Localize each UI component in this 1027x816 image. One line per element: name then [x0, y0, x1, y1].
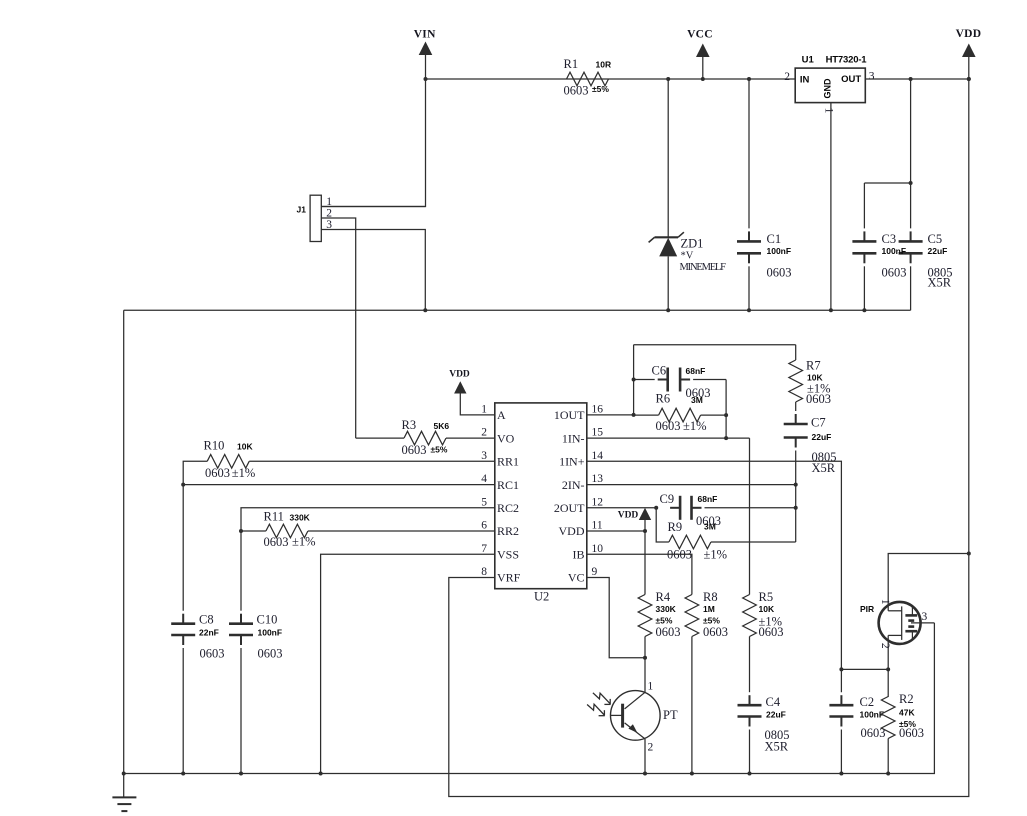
- wire U1 OUT line: [865, 78, 969, 80]
- label U1 pin number 2: [784, 71, 790, 83]
- svg-text:0603: 0603: [264, 535, 289, 549]
- svg-text:2: 2: [648, 742, 654, 754]
- svg-text:C6: C6: [652, 364, 667, 378]
- label C9 0603: [696, 514, 721, 528]
- label R1 value 10R: [596, 59, 612, 69]
- wire VCC stem: [702, 57, 704, 79]
- label R6 value 3M: [691, 395, 703, 405]
- svg-text:R3: R3: [402, 418, 417, 432]
- junction VC/R4: [643, 656, 647, 660]
- svg-text:100nF: 100nF: [882, 246, 907, 256]
- svg-text:VIN: VIN: [414, 29, 436, 41]
- label R6: [656, 392, 671, 406]
- svg-text:7: 7: [481, 543, 487, 555]
- label PT pin 2: [648, 742, 654, 754]
- label U2 pin name 1IN+: [559, 455, 585, 469]
- power flag VDD top-right: [956, 28, 982, 57]
- junction VSS/gnd-rail: [319, 772, 323, 776]
- svg-text:R11: R11: [264, 509, 284, 523]
- label U2 pin number 15: [592, 427, 604, 439]
- wire lower gnd rail: [124, 623, 935, 774]
- wire U2 pin1: [460, 393, 495, 415]
- junction C2/gnd-rail: [839, 772, 843, 776]
- junction U1-GND/gnd-rail: [829, 308, 833, 312]
- ground symbol: [112, 774, 136, 812]
- label R2 value 47K: [899, 707, 915, 717]
- wire R4 to PT: [644, 637, 646, 693]
- wire U2 pin13 2IN-: [587, 484, 796, 486]
- label PT: [663, 708, 678, 722]
- wire U2 pin11 VDD: [587, 530, 645, 532]
- label R11: [264, 509, 284, 523]
- svg-text:RR2: RR2: [497, 524, 519, 538]
- label PIR pin 1: [879, 599, 891, 605]
- svg-text:4: 4: [481, 473, 487, 485]
- svg-text:±5%: ±5%: [592, 84, 609, 94]
- junction pin4/C8 column: [181, 483, 185, 487]
- svg-text:68nF: 68nF: [686, 366, 706, 376]
- svg-text:IB: IB: [573, 548, 585, 562]
- label R9: [668, 520, 683, 534]
- wire U2 pin2: [446, 437, 495, 439]
- svg-text:2: 2: [326, 208, 332, 220]
- svg-text:10R: 10R: [596, 59, 612, 69]
- label U2 pin name 2OUT: [554, 501, 585, 515]
- resistor R9: [669, 535, 711, 549]
- label C7 0805: [812, 450, 837, 464]
- wire R6 left lead: [634, 414, 659, 416]
- svg-text:14: 14: [592, 450, 604, 462]
- resistor R1: [567, 72, 609, 86]
- label R5 0603: [759, 625, 784, 639]
- capacitor C8: [171, 614, 195, 774]
- label C7: [811, 416, 826, 430]
- label U2 pin name RR1: [497, 455, 519, 469]
- svg-text:1IN-: 1IN-: [562, 431, 585, 445]
- wire U2 pin5: [241, 508, 495, 531]
- junction ZD1/gnd-rail: [666, 308, 670, 312]
- svg-text:3M: 3M: [691, 395, 703, 405]
- svg-text:10K: 10K: [759, 604, 775, 614]
- svg-text:RC1: RC1: [497, 478, 519, 492]
- svg-text:100nF: 100nF: [860, 709, 885, 719]
- junction C9 right/C7 column: [794, 506, 798, 510]
- svg-text:100nF: 100nF: [767, 246, 792, 256]
- svg-text:R9: R9: [668, 520, 683, 534]
- svg-text:3M: 3M: [704, 522, 716, 532]
- label R8 0603: [703, 625, 728, 639]
- svg-text:R2: R2: [899, 692, 914, 706]
- svg-text:0603: 0603: [899, 726, 924, 740]
- label R8: [703, 590, 718, 604]
- svg-text:5: 5: [481, 496, 487, 508]
- junction OUT/VDD-rail: [967, 77, 971, 81]
- label C4 value 22uF: [766, 709, 786, 719]
- label PIR pin 3: [922, 611, 928, 623]
- junction pin11/VDD column: [643, 529, 647, 533]
- phototransistor PT collector: [625, 692, 645, 709]
- label U1 pin IN: [800, 75, 810, 86]
- label U2 pin name 2IN-: [562, 478, 585, 492]
- label PIR pin 2: [879, 643, 891, 649]
- svg-text:2: 2: [481, 427, 487, 439]
- svg-text:0603: 0603: [258, 647, 283, 661]
- label J1: [297, 205, 307, 215]
- wire R5 riser: [749, 438, 751, 594]
- svg-text:J1: J1: [297, 205, 307, 215]
- junction VCC/main: [701, 77, 705, 81]
- label U2 pin name VDD: [559, 524, 585, 538]
- label U1 pin GND: [823, 78, 833, 99]
- svg-text:2OUT: 2OUT: [554, 501, 585, 515]
- label R4 tol ±5%: [656, 616, 673, 626]
- label R10 tol ±1%: [232, 466, 256, 480]
- wire PT emitter to gnd: [644, 739, 646, 774]
- wire U2 pin15 1IN-: [587, 437, 750, 439]
- wire U2 pin7 VSS: [321, 554, 495, 773]
- label ZD1 MINEMELF: [680, 262, 727, 273]
- svg-text:330K: 330K: [290, 512, 311, 522]
- junction PIR/VDD-rail: [967, 552, 971, 556]
- junction C5/C3-jog: [909, 181, 913, 185]
- label R5 value 10K: [759, 604, 775, 614]
- svg-text:R1: R1: [564, 57, 579, 71]
- zener diode ZD1: [649, 232, 684, 310]
- svg-text:2: 2: [784, 71, 790, 83]
- svg-text:100nF: 100nF: [258, 628, 283, 638]
- svg-text:330K: 330K: [656, 604, 677, 614]
- label R9 tol ±1%: [704, 547, 728, 561]
- junction OUT/C5: [909, 77, 913, 81]
- svg-text:C1: C1: [767, 232, 782, 246]
- junction R8/gnd-rail: [690, 772, 694, 776]
- label U2 pin name 1IN-: [562, 431, 585, 445]
- junction C4/gnd-rail: [748, 772, 752, 776]
- label C1 0603: [767, 265, 792, 279]
- wire U2 pin12 2OUT: [587, 507, 656, 509]
- svg-text:X5R: X5R: [812, 461, 836, 475]
- label ZD1: [681, 237, 704, 251]
- label C4 0805: [765, 728, 790, 742]
- label R4 value 330K: [656, 604, 677, 614]
- svg-text:22uF: 22uF: [928, 246, 948, 256]
- label R3 tol ±5%: [431, 445, 448, 455]
- svg-text:C4: C4: [766, 695, 781, 709]
- wire R11 left lead: [241, 530, 266, 532]
- wire C2 link: [841, 668, 888, 670]
- svg-text:VC: VC: [568, 571, 585, 585]
- junction R2/gnd-rail: [886, 772, 890, 776]
- label C3: [882, 232, 897, 246]
- svg-text:ZD1: ZD1: [681, 237, 704, 251]
- svg-text:3: 3: [869, 71, 875, 83]
- label U2 pin number 1: [481, 403, 487, 415]
- label C4 X5R: [765, 740, 789, 754]
- svg-text:6: 6: [481, 520, 487, 532]
- svg-text:VRF: VRF: [497, 571, 521, 585]
- label U2 pin number 13: [592, 473, 604, 485]
- wire 1OUT riser: [633, 345, 635, 415]
- svg-text:X5R: X5R: [928, 275, 952, 289]
- label C2 value 100nF: [860, 709, 885, 719]
- label C6: [652, 364, 667, 378]
- label R1: [564, 57, 579, 71]
- wire ZD1 upper lead: [667, 79, 669, 237]
- junction 2OUT node: [654, 506, 658, 510]
- junction PT/gnd-rail: [643, 772, 647, 776]
- svg-text:R5: R5: [759, 590, 774, 604]
- capacitor C9: [670, 496, 796, 520]
- svg-text:MINEMELF: MINEMELF: [680, 262, 727, 273]
- svg-text:GND: GND: [823, 78, 833, 99]
- capacitor C2: [829, 695, 853, 773]
- label U2 pin name A: [497, 408, 506, 422]
- junction PIR-source/C2: [886, 667, 890, 671]
- label R1 0603: [564, 83, 589, 97]
- label C10 0603: [258, 647, 283, 661]
- wire C3 jog: [864, 182, 910, 184]
- light arrow 2: [587, 704, 605, 716]
- label PIR: [860, 604, 874, 614]
- label C3 value 100nF: [882, 246, 907, 256]
- label U2 pin number 2: [481, 427, 487, 439]
- wire VIN down to J1 pin1: [321, 79, 426, 207]
- capacitor C5: [899, 79, 923, 310]
- svg-text:0603: 0603: [759, 625, 784, 639]
- wire left gnd drop: [123, 310, 125, 773]
- PIR internal element: [905, 606, 917, 639]
- svg-text:11: 11: [592, 520, 603, 532]
- svg-text:16: 16: [592, 403, 604, 415]
- wire PIR drain to VDD: [888, 554, 969, 611]
- svg-text:2IN-: 2IN-: [562, 478, 585, 492]
- label U2 pin number 6: [481, 520, 487, 532]
- svg-text:22nF: 22nF: [199, 628, 219, 638]
- wire upper gnd rail: [124, 309, 911, 311]
- junction VIN/main: [424, 77, 428, 81]
- junction C8/gnd-rail: [181, 772, 185, 776]
- svg-text:R8: R8: [703, 590, 718, 604]
- power flag VCC: [687, 28, 713, 57]
- label C5 0805: [928, 265, 953, 279]
- wire R9 right: [711, 541, 796, 543]
- label U2: [534, 590, 549, 604]
- svg-text:10: 10: [592, 543, 604, 555]
- label C6 value 68nF: [686, 366, 706, 376]
- resistor R6: [659, 408, 701, 422]
- label R11 0603: [264, 535, 289, 549]
- label U2 pin name VC: [568, 571, 585, 585]
- label U2 pin name 1OUT: [554, 408, 585, 422]
- label U2 pin number 3: [481, 450, 487, 462]
- label C5 value 22uF: [928, 246, 948, 256]
- svg-text:C3: C3: [882, 232, 897, 246]
- wire U2 pin14 1IN+: [587, 461, 842, 692]
- junction left-drop/gnd-rail: [122, 772, 126, 776]
- svg-text:0603: 0603: [767, 265, 792, 279]
- label U2 pin number 10: [592, 543, 604, 555]
- label ZD1 *V: [681, 251, 694, 262]
- svg-text:A: A: [497, 408, 506, 422]
- svg-text:1: 1: [879, 599, 891, 605]
- junction C10/gnd-rail: [239, 772, 243, 776]
- label U2 pin number 16: [592, 403, 604, 415]
- svg-text:VDD: VDD: [559, 524, 585, 538]
- label R4 0603: [656, 625, 681, 639]
- svg-text:IN: IN: [800, 75, 810, 86]
- svg-text:0603: 0603: [806, 392, 831, 406]
- svg-text:9: 9: [592, 566, 598, 578]
- svg-text:1M: 1M: [703, 604, 715, 614]
- svg-text:10K: 10K: [237, 442, 253, 452]
- svg-text:8: 8: [481, 566, 487, 578]
- PIR internal electrode: [888, 606, 902, 640]
- svg-text:1: 1: [823, 108, 835, 114]
- label U2 pin number 8: [481, 566, 487, 578]
- connector J1 body: [310, 195, 321, 241]
- label R11 value 330K: [290, 512, 311, 522]
- svg-text:0603: 0603: [200, 647, 225, 661]
- label R7 0603: [806, 392, 831, 406]
- svg-text:0603: 0603: [205, 466, 230, 480]
- resistor R11: [266, 524, 308, 538]
- label C5: [928, 232, 943, 246]
- svg-text:±1%: ±1%: [232, 466, 256, 480]
- svg-text:12: 12: [592, 496, 604, 508]
- label C5 X5R: [928, 275, 952, 289]
- label U1 pin number 3: [869, 71, 875, 83]
- junction pin5/R11: [239, 529, 243, 533]
- capacitor C7: [784, 402, 808, 542]
- light arrow 1: [593, 693, 611, 705]
- svg-text:VDD: VDD: [618, 510, 639, 520]
- label R7 tol ±1%: [807, 382, 831, 396]
- wire PIR gate out: [911, 622, 934, 624]
- label R3 0603: [402, 443, 427, 457]
- label C8 0603: [200, 647, 225, 661]
- capacitor C1: [737, 79, 761, 310]
- junction VDD-rail/OUT: [967, 77, 971, 81]
- capacitor C10: [229, 531, 253, 774]
- power flag VDD at 2OUT: [618, 508, 651, 521]
- junction C1/gnd-rail: [747, 308, 751, 312]
- svg-text:R6: R6: [656, 392, 671, 406]
- label U2 pin number 12: [592, 496, 604, 508]
- wire J1 pin3 stub: [321, 230, 425, 311]
- svg-text:1: 1: [481, 403, 487, 415]
- wire R8 to gnd: [691, 637, 693, 774]
- label C6 0603: [686, 386, 711, 400]
- label U2 pin name RC2: [497, 501, 519, 515]
- wire R3 left: [356, 437, 404, 439]
- junction ZD1/main: [666, 77, 670, 81]
- label C8: [199, 613, 214, 627]
- junction C6 left: [632, 378, 636, 382]
- junction R6/C6 right: [724, 413, 728, 417]
- label R9 0603: [667, 547, 692, 561]
- svg-text:RR1: RR1: [497, 455, 519, 469]
- phototransistor PT circle: [611, 691, 661, 741]
- resistor R2: [881, 697, 895, 739]
- junction C2 column: [839, 667, 843, 671]
- label R10 value 10K: [237, 442, 253, 452]
- label C3 0603: [882, 265, 907, 279]
- svg-text:0603: 0603: [882, 265, 907, 279]
- label C4: [766, 695, 781, 709]
- svg-text:5K6: 5K6: [434, 421, 450, 431]
- wire VIN stem: [425, 55, 427, 79]
- label R5: [759, 590, 774, 604]
- label R8 value 1M: [703, 604, 715, 614]
- label R7: [806, 359, 821, 373]
- label R4: [656, 590, 671, 604]
- wire U2 pin8 VRF: [449, 56, 969, 797]
- svg-text:R7: R7: [806, 359, 821, 373]
- label R8 tol ±5%: [703, 616, 720, 626]
- svg-text:*V: *V: [681, 251, 694, 262]
- junction 1OUT node: [632, 413, 636, 417]
- wire J1 pin2 stub: [321, 218, 356, 438]
- phototransistor PT base bar: [621, 704, 624, 728]
- svg-text:R4: R4: [656, 590, 671, 604]
- svg-text:HT7320-1: HT7320-1: [826, 55, 868, 66]
- wire R2 to gnd: [887, 739, 889, 774]
- svg-text:1OUT: 1OUT: [554, 408, 585, 422]
- label U1 part HT7320-1: [826, 55, 868, 66]
- resistor R4: [638, 595, 652, 637]
- svg-text:C7: C7: [811, 416, 826, 430]
- svg-text:C10: C10: [257, 613, 278, 627]
- wire U2 pin9 VC: [587, 578, 645, 658]
- svg-text:VCC: VCC: [687, 28, 713, 40]
- svg-text:0603: 0603: [656, 419, 681, 433]
- label C9: [660, 492, 675, 506]
- svg-text:C2: C2: [860, 695, 875, 709]
- label C1 value 100nF: [767, 246, 792, 256]
- label U2 pin number 7: [481, 543, 487, 555]
- label U2 pin name IB: [573, 548, 585, 562]
- wire VDD to R4: [644, 520, 646, 595]
- svg-text:3: 3: [922, 611, 928, 623]
- junction 2IN-/C7 column: [794, 483, 798, 487]
- label R6 0603: [656, 419, 681, 433]
- label C10: [257, 613, 278, 627]
- junction 1IN-/feedback: [724, 436, 728, 440]
- label C1: [767, 232, 782, 246]
- svg-text:3: 3: [481, 450, 487, 462]
- svg-text:±1%: ±1%: [704, 547, 728, 561]
- svg-text:0603: 0603: [402, 443, 427, 457]
- label U2 pin name VRF: [497, 571, 521, 585]
- label U2 pin name RC1: [497, 478, 519, 492]
- resistor R7: [789, 345, 803, 402]
- label C7 value 22uF: [812, 432, 832, 442]
- label U2 pin number 14: [592, 450, 604, 462]
- label U1 pin number 1: [823, 108, 835, 114]
- label U1: [802, 55, 815, 66]
- label R2 tol ±5%: [899, 719, 916, 729]
- label R5 tol ±1%: [759, 615, 783, 629]
- svg-text:R10: R10: [204, 439, 225, 453]
- label R11 tol ±1%: [292, 535, 316, 549]
- label R9 value 3M: [704, 522, 716, 532]
- label U2 pin number 5: [481, 496, 487, 508]
- svg-text:OUT: OUT: [841, 74, 861, 85]
- wire U2 pin3: [249, 460, 495, 462]
- wire U2 pin4: [183, 484, 495, 486]
- label R10 0603: [205, 466, 230, 480]
- svg-text:68nF: 68nF: [698, 494, 718, 504]
